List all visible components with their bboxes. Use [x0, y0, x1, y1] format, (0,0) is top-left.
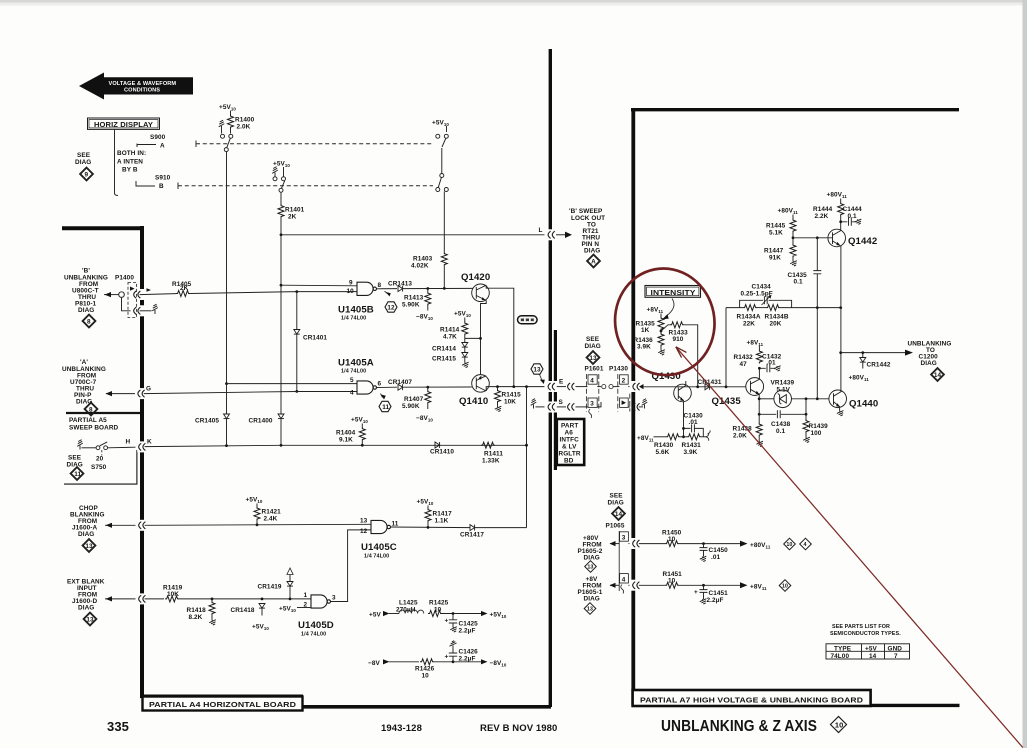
A7 board label box [633, 690, 871, 706]
svg-text:12: 12 [387, 304, 395, 311]
riser from K wire up to E wire and down to CR1417 wire [526, 387, 528, 528]
switch bracket line from HORIZ DISPLAY [115, 130, 119, 196]
svg-text:3: 3 [590, 401, 594, 408]
svg-text:C1425: C1425 [459, 621, 479, 628]
red open arrowhead [676, 347, 687, 358]
svg-text:1/4 74L00: 1/4 74L00 [341, 369, 366, 375]
svg-text:P1065: P1065 [606, 523, 625, 530]
Q1420 emitter chain down to Q1410 [481, 301, 487, 375]
svg-text:U1405A: U1405A [338, 358, 374, 369]
diode CR1442 [861, 351, 864, 354]
transistor Q1440 [829, 390, 847, 408]
Q1440 collector riser shared with Q1442 emitter [840, 245, 842, 391]
svg-text:R1430: R1430 [654, 442, 674, 449]
red circle around INTENSITY [606, 260, 724, 384]
pin box arrow P1430 lower [620, 398, 629, 407]
wire gaps in A4 left edge [137, 289, 146, 604]
svg-text:13: 13 [589, 355, 597, 362]
R1434A R1434B feedback resistors [726, 307, 743, 309]
ground below R1436 [658, 349, 667, 356]
svg-text:G: G [146, 386, 151, 393]
svg-text:2.4K: 2.4K [264, 516, 278, 523]
svg-text:'B' SWEEP: 'B' SWEEP [569, 208, 603, 215]
svg-text:270µH: 270µH [396, 606, 416, 613]
svg-text:PARTIAL A7 HIGH VOLTAGE & UNBL: PARTIAL A7 HIGH VOLTAGE & UNBLANKING BOA… [640, 696, 864, 705]
resistor R1431 [687, 434, 701, 440]
svg-text:R1413: R1413 [404, 295, 424, 302]
svg-text:R1417: R1417 [433, 511, 453, 518]
diode CR1419 with open arrow [287, 568, 293, 575]
svg-text:.01: .01 [711, 554, 721, 561]
svg-text:R1447: R1447 [764, 248, 784, 255]
svg-text:.01: .01 [767, 360, 777, 367]
pin box 2 P1430 [620, 375, 629, 384]
svg-text:'B': 'B' [82, 268, 90, 275]
svg-text:1/4 74L00: 1/4 74L00 [341, 316, 366, 322]
arrow leaving board to B sweep note [556, 234, 565, 236]
wire down from switch to L line crossing to R1403 [443, 192, 445, 253]
svg-text:2.0K: 2.0K [237, 124, 251, 131]
transistor Q1430 [674, 381, 692, 402]
svg-text:91K: 91K [769, 255, 781, 262]
svg-text:RGLTR: RGLTR [559, 451, 581, 458]
svg-text:1.33K: 1.33K [482, 458, 500, 465]
svg-text:1K: 1K [641, 327, 650, 334]
svg-text:P1430: P1430 [609, 366, 628, 373]
svg-text:DIAG: DIAG [78, 605, 94, 612]
svg-text:CR1414: CR1414 [432, 346, 456, 353]
svg-text:REV B NOV 1980: REV B NOV 1980 [480, 723, 557, 734]
red pointer line to bottom right corner [676, 347, 1023, 748]
svg-text:100: 100 [811, 430, 822, 437]
svg-text:+5V: +5V [865, 645, 877, 652]
ganged switch dashed link A [195, 141, 197, 148]
resistor R1413 [425, 292, 431, 306]
resistor R1433 [670, 322, 684, 328]
hexagon 11 test point [381, 394, 383, 398]
svg-text:10: 10 [668, 536, 676, 543]
switch S910 section B contacts [273, 177, 277, 181]
resistor R1430 [666, 434, 680, 440]
ext blank source note [67, 579, 105, 627]
svg-text:11: 11 [74, 471, 81, 478]
gray pill deleted part [518, 316, 538, 324]
svg-text:CR1400: CR1400 [249, 418, 273, 425]
svg-text:GND: GND [888, 645, 903, 652]
L wire from R1401 to divider [281, 234, 545, 236]
svg-text:R1415: R1415 [502, 392, 522, 399]
svg-text:10: 10 [422, 673, 430, 680]
NAND gate U1405C [371, 520, 391, 533]
svg-text:3.9K: 3.9K [684, 449, 698, 456]
pin box 3 P1601 [588, 398, 597, 407]
svg-text:R1403: R1403 [413, 256, 433, 263]
gate D output up to gate C pin 12 [331, 530, 371, 602]
ganged switch dashed link B [177, 183, 179, 190]
svg-text:R1414: R1414 [440, 327, 460, 334]
svg-text:4: 4 [804, 542, 807, 548]
svg-text:4: 4 [590, 378, 594, 385]
svg-text:PARTIAL A5: PARTIAL A5 [69, 417, 107, 424]
INTENSITY control label box [645, 286, 701, 298]
svg-text:5.90K: 5.90K [402, 403, 420, 410]
svg-text:SEE: SEE [68, 455, 82, 462]
svg-text:P1601: P1601 [585, 366, 604, 373]
svg-text:0.1: 0.1 [776, 428, 786, 435]
svg-text:1: 1 [304, 592, 308, 599]
resistor R1445 [790, 219, 796, 233]
svg-text:8: 8 [87, 318, 91, 325]
svg-text:SEE: SEE [77, 152, 91, 159]
diode CR1400 [278, 414, 284, 419]
svg-text:DIAG: DIAG [585, 343, 601, 350]
svg-text:CR1410: CR1410 [430, 449, 454, 456]
NAND gate U1405A [357, 381, 377, 394]
P1065 rail R1450 to +80V11 [639, 543, 665, 545]
tap wire to resistor R1433 [661, 325, 670, 331]
see diag 14 above P1065 [608, 493, 626, 521]
svg-text:DIAG: DIAG [67, 462, 83, 469]
svg-text:CR1442: CR1442 [867, 362, 891, 369]
svg-text:+5V: +5V [369, 612, 381, 619]
svg-text:20: 20 [96, 456, 104, 463]
svg-text:9: 9 [85, 171, 89, 178]
resistor R1438 [756, 423, 762, 437]
svg-text:14: 14 [869, 653, 877, 660]
svg-text:SWEEP BOARD: SWEEP BOARD [69, 425, 119, 432]
svg-text:SEE: SEE [610, 493, 624, 500]
svg-text:2.2µF: 2.2µF [707, 597, 724, 604]
svg-text:CR1418: CR1418 [231, 607, 255, 614]
resistor R1439 [805, 399, 807, 419]
capacitor C1450 [703, 544, 705, 548]
svg-text:11: 11 [392, 521, 399, 528]
transistor Q1420 [472, 284, 490, 302]
svg-text:R1434A: R1434A [737, 314, 761, 321]
svg-text:C1426: C1426 [459, 649, 479, 656]
+80V from P1605-2 note [578, 535, 603, 572]
wire to resistor R1401 [280, 192, 282, 204]
svg-text:R1400: R1400 [235, 117, 255, 124]
svg-text:CR1419: CR1419 [258, 584, 282, 591]
resistor R1421 [254, 507, 260, 521]
chop blanking source note [70, 505, 105, 553]
A4 board bottom edge right portion [303, 705, 551, 709]
svg-text:0.1: 0.1 [848, 213, 858, 220]
svg-text:A6: A6 [565, 430, 574, 437]
svg-text:11: 11 [382, 404, 389, 411]
svg-text:PART: PART [561, 423, 578, 430]
resistor R1417 [425, 508, 431, 522]
svg-text:R1401: R1401 [285, 207, 305, 214]
S750 trace separate switch [67, 455, 85, 481]
P1065 pin 3 with wire [610, 543, 619, 545]
svg-text:4.7K: 4.7K [443, 334, 457, 341]
resistor R1418 [211, 599, 213, 601]
svg-text:910: 910 [673, 336, 684, 343]
NAND gate U1405B [357, 282, 377, 295]
svg-text:13: 13 [587, 565, 593, 571]
svg-text:10: 10 [835, 720, 843, 729]
svg-text:K: K [147, 439, 152, 446]
svg-text:20K: 20K [770, 321, 782, 328]
resistor R1411 on K wire [481, 442, 495, 448]
resistor R1432 [756, 350, 762, 364]
svg-text:R1434B: R1434B [765, 314, 789, 321]
svg-text:9.1K: 9.1K [339, 437, 353, 444]
svg-text:5.1V: 5.1V [777, 386, 791, 393]
svg-text:R1407: R1407 [404, 396, 424, 403]
svg-text:10: 10 [347, 288, 355, 295]
svg-text:0.25-1.5pF: 0.25-1.5pF [741, 291, 773, 298]
feedback drop to base wire [725, 308, 727, 387]
switch S900 section A contacts [221, 134, 225, 138]
svg-text:E: E [559, 379, 564, 386]
svg-text:13: 13 [587, 607, 593, 613]
resistor R1419 [165, 596, 179, 602]
svg-text:DIAG: DIAG [921, 360, 937, 367]
svg-text:10K: 10K [167, 591, 179, 598]
svg-text:HORIZ DISPLAY: HORIZ DISPLAY [94, 120, 153, 129]
svg-text:+: + [445, 618, 449, 625]
svg-text:DIAG: DIAG [608, 500, 624, 507]
resistor R1400 [230, 111, 232, 115]
resistor R1401 [278, 204, 284, 218]
svg-text:1943-128: 1943-128 [381, 723, 422, 734]
P1065 rail R1451 to +8V11 [639, 584, 665, 586]
svg-text:2K: 2K [288, 214, 297, 221]
svg-text:7: 7 [894, 653, 898, 660]
svg-text:335: 335 [107, 719, 129, 734]
A4 board label box [143, 697, 303, 711]
gate pin 5 wire from switch A line [225, 382, 228, 385]
svg-text:PARTIAL A4 HORIZONTAL BOARD: PARTIAL A4 HORIZONTAL BOARD [149, 700, 297, 709]
svg-text:DIAG: DIAG [584, 596, 600, 603]
svg-text:CR1405: CR1405 [195, 418, 219, 425]
svg-text:9: 9 [349, 280, 353, 287]
svg-text:Q1442: Q1442 [848, 236, 877, 247]
A5 sweep board partial outline [66, 412, 140, 414]
svg-text:INTFC: INTFC [560, 437, 580, 444]
svg-text:1/4 74L00: 1/4 74L00 [364, 554, 389, 560]
svg-text:8.2K: 8.2K [189, 614, 203, 621]
svg-text:R1439: R1439 [809, 423, 829, 430]
svg-text:10: 10 [434, 606, 442, 613]
svg-text:10: 10 [786, 542, 792, 548]
voltage & waveform conditions arrow [79, 73, 193, 100]
svg-text:13: 13 [86, 616, 94, 623]
svg-text:0.1: 0.1 [794, 279, 804, 286]
svg-text:DIAG: DIAG [75, 159, 91, 166]
svg-text:DIAG: DIAG [584, 248, 600, 255]
resistor R1415 [497, 387, 499, 389]
svg-text:R1421: R1421 [262, 509, 282, 516]
resistor R1404 [359, 427, 365, 441]
svg-text:10: 10 [668, 577, 676, 584]
resistor R1414 [462, 322, 468, 336]
svg-text:+: + [694, 589, 698, 596]
svg-text:4: 4 [350, 390, 354, 397]
unblanking output arrow [841, 352, 906, 354]
HORIZ DISPLAY switch label box [88, 118, 160, 129]
svg-text:+: + [445, 654, 449, 661]
capacitor C1438 [759, 413, 806, 415]
resistor R1426 [420, 659, 434, 665]
svg-text:2: 2 [622, 378, 626, 385]
svg-text:R1445: R1445 [766, 223, 786, 230]
svg-text:10K: 10K [504, 399, 516, 406]
svg-text:S900: S900 [150, 134, 166, 141]
chassis stub at S910 [272, 167, 278, 177]
diode CR1414 [462, 343, 468, 348]
svg-text:1.1K: 1.1K [435, 518, 449, 525]
wire B into board with resistor R1405 [147, 288, 152, 291]
svg-text:S: S [559, 399, 564, 406]
svg-text:CR1431: CR1431 [698, 379, 722, 386]
A4 board right edge / center divider [549, 49, 552, 707]
svg-text:DIAG: DIAG [78, 307, 94, 314]
svg-text:H: H [126, 439, 131, 446]
A7 board left edge [631, 108, 635, 705]
A7 board top edge [631, 108, 959, 111]
pin box 4 P1601 [588, 375, 597, 384]
svg-text:CR1417: CR1417 [460, 532, 484, 539]
svg-text:R1411: R1411 [484, 451, 503, 458]
svg-text:3.9K: 3.9K [637, 344, 651, 351]
svg-text:14: 14 [615, 511, 623, 518]
svg-text:10: 10 [782, 584, 788, 590]
svg-text:SEE PARTS LIST FOR: SEE PARTS LIST FOR [832, 624, 890, 630]
resistor R1444 [838, 202, 844, 216]
diode CR1410 on K wire [435, 442, 440, 448]
svg-text:.01: .01 [689, 419, 699, 426]
svg-text:CR1415: CR1415 [432, 356, 456, 363]
hexagon 13 ref with arrow [531, 364, 543, 374]
main wire from Q1410 to divider (E line) [486, 387, 544, 391]
diode CR1405 [224, 414, 230, 419]
svg-text:A INTEN: A INTEN [117, 159, 143, 166]
'B' sweep lock out note [569, 208, 605, 268]
svg-text:UNBLANKING & Z AXIS: UNBLANKING & Z AXIS [661, 718, 817, 735]
svg-text:P1400: P1400 [115, 275, 134, 282]
pointer from INTENSITY to R1435 wiper [666, 299, 675, 317]
S900 contact label [137, 134, 166, 150]
diode CR1417 [470, 525, 475, 531]
chop wire into board [105, 524, 136, 526]
svg-text:Q1410: Q1410 [459, 396, 488, 407]
chassis stub at R1400 [219, 120, 225, 130]
A4 horizontal board left edge [62, 226, 142, 696]
A4 board bottom edge left portion [140, 694, 303, 698]
svg-text:13: 13 [360, 518, 368, 525]
svg-text:INTENSITY: INTENSITY [651, 288, 696, 297]
resistor R1403 [441, 252, 447, 266]
resistor R1425 [428, 611, 442, 617]
resistor R1436 [658, 333, 664, 347]
svg-text:2.2µF: 2.2µF [459, 656, 476, 663]
svg-text:3: 3 [622, 535, 626, 542]
svg-text:4.02K: 4.02K [411, 263, 429, 270]
CR1401 branch line [295, 290, 298, 293]
svg-text:R1404: R1404 [336, 430, 356, 437]
transistor Q1442 [828, 229, 846, 247]
svg-text:U1405B: U1405B [338, 305, 374, 316]
svg-text:4: 4 [622, 576, 626, 583]
BOTH IN: A INTEN BY B note [117, 150, 146, 174]
svg-text:U1405D: U1405D [298, 620, 334, 631]
see diag 13 above P1601 [585, 336, 601, 365]
svg-text:Q1440: Q1440 [849, 399, 878, 410]
svg-text:A: A [160, 143, 165, 150]
diode CR1401 [294, 330, 300, 335]
Q1430 emitter network C1430 R1430 R1431 [683, 401, 685, 436]
P1065 pin 4 with wire [610, 584, 619, 586]
svg-text:1/4 74L00: 1/4 74L00 [301, 632, 326, 638]
svg-text:L: L [539, 227, 543, 234]
svg-text:& LV: & LV [562, 444, 577, 451]
transistor Q1410 [472, 375, 490, 393]
capacitor C1425 [452, 614, 454, 620]
svg-text:12: 12 [360, 528, 368, 535]
svg-text:5.6K: 5.6K [656, 449, 670, 456]
svg-text:B: B [159, 183, 164, 190]
capacitor C1434 with trimmer arrow [740, 300, 792, 307]
bracket around P1601 pins [586, 374, 598, 412]
svg-text:R1431: R1431 [682, 442, 702, 449]
C1435 feedback leg [816, 238, 818, 399]
A6 strip edge bar [554, 330, 557, 470]
svg-text:S750: S750 [91, 464, 107, 471]
'B' unblanking source note [64, 268, 108, 329]
hexagon 12 test point [385, 291, 389, 294]
svg-text:5.90K: 5.90K [402, 302, 420, 309]
S wire stub on A4 side to chassis [531, 399, 537, 409]
PART A6 INTFC & LV RGLTR BD box [557, 419, 584, 465]
svg-text:VOLTAGE & WAVEFORM: VOLTAGE & WAVEFORM [109, 81, 177, 87]
R1403 column junction [443, 287, 446, 290]
resistor R1407 [425, 390, 431, 404]
svg-text:5.1K: 5.1K [769, 230, 783, 237]
svg-text:CR1407: CR1407 [388, 379, 412, 386]
inductor L1425 [399, 610, 424, 613]
svg-text:47: 47 [740, 361, 748, 368]
type power table [826, 644, 910, 660]
svg-text:S910: S910 [155, 175, 171, 182]
svg-text:BOTH IN:: BOTH IN: [117, 150, 146, 157]
svg-text:U1405C: U1405C [361, 542, 397, 553]
svg-text:2.2K: 2.2K [815, 213, 829, 220]
diode CR1407 [398, 384, 403, 390]
svg-text:SEMICONDUCTOR TYPES.: SEMICONDUCTOR TYPES. [830, 631, 901, 637]
svg-text:2.0K: 2.0K [733, 433, 747, 440]
svg-text:CR1401: CR1401 [303, 335, 327, 342]
svg-text:R1426: R1426 [415, 666, 435, 673]
gate B output wire [377, 288, 397, 290]
capacitor C1451 polarized [703, 585, 705, 589]
svg-text:DIAG: DIAG [584, 555, 600, 562]
svg-text:8: 8 [378, 282, 382, 289]
wire from R1401 column down to gate pin 9 [280, 235, 282, 285]
Q1420 collector wire over to vertical drop [486, 285, 514, 386]
+8V from P1605-1 note [578, 576, 603, 614]
svg-text:R1418: R1418 [187, 607, 207, 614]
svg-text:R1444: R1444 [813, 206, 833, 213]
svg-text:CR1413: CR1413 [388, 281, 412, 288]
diode CR1415 [462, 353, 468, 358]
E wire exit chevrons through divider [545, 381, 557, 392]
svg-text:8: 8 [89, 406, 93, 413]
diode CR1431 [705, 384, 710, 390]
